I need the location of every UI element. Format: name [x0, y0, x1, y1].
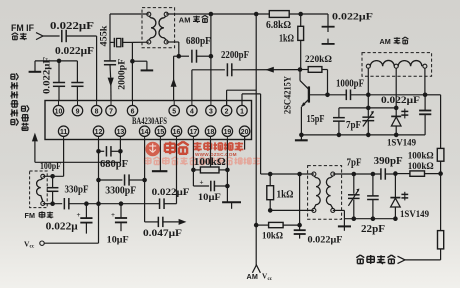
label 7pF AM tank: [346, 120, 361, 131]
label 0.022uF pin16: [152, 188, 190, 198]
resistor 100k horizontal: [395, 171, 440, 176]
wire pin4: [191, 70, 193, 101]
svg-text:0.022μF: 0.022μF: [332, 13, 373, 23]
svg-text:0.022μF: 0.022μF: [55, 46, 94, 57]
label 7pF FM tank: [347, 158, 362, 169]
wire antenna left tap down: [367, 68, 369, 108]
capacitor 0.022uF pin9: [71, 61, 83, 101]
svg-text:19: 19: [224, 129, 232, 136]
svg-text:18: 18: [207, 129, 215, 136]
junction: [119, 201, 124, 206]
junction: [225, 168, 230, 173]
wire AM tank top rail: [339, 107, 396, 109]
ground pin19: [222, 140, 241, 209]
label 22pF: [361, 224, 385, 235]
svg-text:AM: AM: [179, 16, 191, 25]
wire pin11 to coil: [43, 175, 64, 177]
junction: [423, 93, 428, 98]
svg-text:AM: AM: [247, 272, 259, 281]
capacitor electrolytic near Vcc: [77, 204, 93, 234]
label 0.022uF pins 9-10: [55, 46, 94, 57]
label 100k lower: [408, 162, 434, 172]
svg-text:AM: AM: [380, 37, 391, 46]
wire: [405, 259, 441, 261]
pin 14: [139, 126, 149, 140]
resistor 1k top: [279, 14, 304, 70]
transformer T1 right coil: [159, 16, 166, 40]
svg-text:15pF: 15pF: [307, 114, 325, 125]
svg-text:7pF: 7pF: [347, 158, 362, 169]
capacitor 100pF: [47, 176, 59, 203]
discriminator coil dashed box: [30, 171, 48, 208]
watermark logo disc: [145, 142, 160, 157]
resistor tuning divider: [438, 231, 444, 260]
capacitor 0.022uF FM IF coupling: [50, 21, 94, 42]
label 2SC4215Y vertical: [283, 76, 293, 114]
label tuning voltage: [356, 255, 395, 264]
wire to pin 8: [96, 36, 98, 101]
pin 6: [127, 101, 137, 116]
label 10uF pin17-19: [198, 193, 221, 203]
wire pin18: [210, 140, 212, 168]
svg-text:8: 8: [95, 108, 99, 115]
pin 11: [58, 126, 68, 140]
ground FM tank: [338, 219, 351, 231]
svg-text:6: 6: [131, 108, 135, 115]
junction: [177, 54, 182, 59]
capacitor 0.047uF with arrow out: [143, 217, 186, 239]
wire pin5 with arrow: [174, 56, 179, 100]
op-amp U1 BA4230AFS IC body: [45, 101, 252, 140]
svg-text:12: 12: [95, 129, 103, 136]
discriminator coil FM: [37, 174, 45, 205]
capacitor 0.022uF AM tank right: [419, 95, 431, 135]
svg-text:BA4230AFS: BA4230AFS: [132, 117, 167, 127]
label 680pF lower: [100, 159, 128, 170]
antenna coil L1: [366, 60, 427, 68]
wire pin6: [131, 42, 133, 100]
svg-text:1SV149: 1SV149: [387, 139, 416, 149]
pin 19: [222, 126, 232, 140]
wire antenna mid tap down: [395, 68, 397, 108]
svg-text:2SC4215Y: 2SC4215Y: [283, 76, 293, 114]
wire 330pF to pin12 rail: [69, 203, 160, 205]
junction: [394, 133, 399, 138]
junction: [84, 201, 89, 206]
junction: [366, 106, 371, 111]
ceramic filter 455k: [110, 38, 132, 47]
svg-text:16: 16: [173, 129, 181, 136]
capacitor 0.022uF pin10: [53, 61, 65, 101]
wire T2 bottom right to ground: [333, 210, 345, 218]
junction: [352, 216, 357, 221]
capacitor 2200pF: [221, 50, 249, 76]
wire feedback to audio: [35, 141, 121, 162]
svg-text:2200pF: 2200pF: [221, 50, 249, 61]
antenna AM dashed box: [362, 53, 432, 77]
wire T2 top to tank: [333, 173, 381, 175]
svg-text:15: 15: [157, 129, 165, 136]
svg-text:22pF: 22pF: [361, 224, 385, 235]
input arrow FM IF: [36, 33, 43, 40]
capacitor 2000pF: [104, 61, 116, 101]
watermark characters 电子市场网: [193, 142, 243, 151]
resistor 6.8k: [266, 11, 291, 31]
transformer T2 right coil: [326, 176, 332, 208]
label 100pF: [40, 162, 61, 172]
junction: [209, 12, 214, 17]
svg-text:10kΩ: 10kΩ: [262, 232, 283, 242]
pin 10: [53, 101, 63, 116]
capacitor 680pF pin12-13: [99, 146, 121, 156]
svg-text:100kΩ: 100kΩ: [194, 157, 226, 168]
svg-text:1kΩ: 1kΩ: [277, 190, 294, 201]
junction: [50, 174, 55, 179]
capacitor 390pF: [374, 156, 403, 180]
junction: [366, 133, 371, 138]
svg-text:14: 14: [141, 129, 149, 136]
capacitor 0.022uF bottom middle: [294, 225, 306, 239]
varactor D2 1SV149 FM: [390, 174, 408, 219]
junction: [352, 172, 357, 177]
pin 4: [187, 101, 197, 116]
capacitor electrolytic 10uF pin17-19: [193, 170, 227, 191]
resistor 10k: [256, 222, 299, 241]
resistor 100k pin17-19: [193, 167, 227, 173]
watermark pink slogan row: [145, 157, 261, 165]
junction: [96, 201, 101, 206]
junction: [254, 12, 259, 17]
wire discriminator bottom: [43, 203, 62, 205]
pin 12: [93, 126, 103, 140]
wire top left to transformer: [110, 13, 149, 15]
label 0.022uF bottom middle: [308, 235, 343, 245]
capacitor 22pF: [367, 174, 379, 219]
svg-text:5: 5: [172, 108, 176, 115]
junction: [268, 172, 273, 177]
svg-text:1000pF: 1000pF: [336, 79, 364, 90]
capacitor 1000pF: [328, 79, 426, 101]
wire 2200pF to transistor node: [232, 69, 300, 71]
capacitor 15pF: [307, 108, 345, 135]
junction: [371, 172, 376, 177]
transformer T2 terminals: [312, 172, 335, 212]
label 10uF mid: [107, 236, 129, 246]
label 1SV149 AM: [387, 139, 416, 149]
wire T1 bottom-left to pin6 node: [132, 41, 148, 43]
label FM IF input: [11, 23, 34, 40]
transformer T2 FM osc (dashed box): [308, 166, 342, 220]
wire pin3: [210, 14, 212, 101]
wire to right rail: [425, 95, 441, 149]
wire down 455k node: [109, 14, 111, 61]
watermark big characters 维库: [165, 142, 189, 155]
junction: [337, 133, 342, 138]
svg-text:680pF: 680pF: [100, 159, 128, 170]
label 0.022u: [46, 221, 78, 232]
svg-text:7: 7: [109, 108, 113, 115]
wire oscillator bottom: [270, 209, 314, 211]
svg-text:455k: 455k: [99, 26, 109, 47]
label 100k upper: [408, 152, 434, 162]
label 2000pF vertical: [117, 58, 127, 90]
wire: [66, 35, 96, 37]
trimmer 7pF FM: [348, 174, 360, 219]
wire: [289, 13, 328, 15]
transistor Q1 2SC4215Y: [300, 70, 328, 135]
svg-text:0.022μF: 0.022μF: [381, 96, 420, 106]
label 1SV149 FM: [400, 210, 429, 220]
ground pin6 node: [132, 61, 153, 70]
stub pin20: [244, 137, 246, 150]
svg-text:11: 11: [60, 129, 67, 136]
wire: [192, 69, 225, 71]
svg-text:680pF: 680pF: [186, 36, 211, 47]
wire AM tank bottom rail: [301, 134, 425, 136]
terminal Vcc: [24, 239, 44, 249]
svg-text:0.022μ: 0.022μ: [46, 221, 78, 232]
wire T1 bottom-right: [166, 42, 179, 56]
svg-text:3: 3: [209, 108, 213, 115]
pin 16: [171, 126, 181, 140]
wire: [35, 60, 77, 62]
junction: [254, 223, 259, 228]
input arrow tuning voltage: [398, 256, 406, 263]
capacitor 330pF: [64, 185, 88, 210]
wire AM Vcc rail: [255, 14, 257, 225]
wire pin11: [63, 140, 65, 177]
junction: [130, 59, 135, 64]
ground top-left: [29, 61, 42, 72]
label 0.022uF vertical: [42, 56, 52, 94]
junction: [393, 216, 398, 221]
svg-text:+: +: [77, 211, 81, 219]
label 0.022uF right: [381, 96, 420, 106]
junction: [394, 106, 399, 111]
svg-text:1: 1: [240, 108, 244, 115]
wire 220k to base: [327, 70, 329, 95]
capacitor 0.022uF top right: [322, 13, 374, 44]
junction: [393, 171, 398, 176]
junction: [118, 149, 123, 154]
wire pin13: [119, 140, 121, 152]
junction: [438, 171, 443, 176]
junction: [191, 168, 196, 173]
svg-text:0.022μF: 0.022μF: [50, 21, 94, 32]
svg-text:4: 4: [190, 108, 194, 115]
svg-text:0.022μF: 0.022μF: [42, 56, 52, 94]
wire FM tank bottom rail: [344, 218, 395, 220]
wire AM Vcc down: [255, 225, 257, 266]
svg-text:6.8kΩ: 6.8kΩ: [266, 20, 291, 31]
svg-text:17: 17: [190, 129, 198, 136]
capacitor 3300pF: [99, 174, 145, 196]
label audio feedback voltage vertical: [11, 73, 19, 125]
trimmer 7pF AM: [362, 108, 374, 135]
transformer T1 left coil: [149, 16, 156, 40]
label to high amp vertical: [21, 105, 29, 130]
arrow up into T1: [171, 78, 177, 87]
transformer T1 AM IF (dashed box): [142, 8, 175, 48]
wire antenna right tap down: [424, 68, 426, 95]
svg-text:10μF: 10μF: [107, 236, 129, 246]
svg-text:1kΩ: 1kΩ: [279, 34, 294, 45]
wire pin12 rail: [98, 140, 100, 244]
svg-text:FM IF: FM IF: [11, 23, 34, 33]
pin 13: [115, 126, 125, 140]
junction: [268, 208, 273, 213]
arrow left on 2200pF wire: [265, 67, 274, 73]
pin 1: [237, 101, 247, 116]
svg-text:0.047μF: 0.047μF: [143, 229, 182, 239]
varactor D1 1SV149 AM: [391, 108, 408, 135]
pin 15: [155, 126, 165, 140]
capacitor 0.022uF pin16: [160, 140, 177, 210]
transformer T1 terminals: [147, 12, 168, 44]
junction: [225, 184, 230, 189]
junction: [209, 54, 214, 59]
svg-text:220kΩ: 220kΩ: [305, 55, 332, 65]
junction: [57, 59, 62, 64]
pin 9: [72, 101, 82, 116]
arrow into pin 7: [108, 78, 114, 87]
arrow AM Vcc: [252, 265, 260, 273]
svg-text:7pF: 7pF: [346, 120, 361, 131]
label AM IF transformer: [179, 15, 208, 24]
junction: [366, 93, 371, 98]
svg-text:cc: cc: [30, 244, 35, 250]
svg-text:+: +: [200, 178, 204, 186]
label 455k vertical: [99, 26, 109, 47]
svg-text:20: 20: [241, 129, 249, 136]
junction: [142, 178, 147, 183]
svg-text:100kΩ: 100kΩ: [408, 152, 434, 162]
wire pin17: [192, 140, 194, 170]
pin 8: [91, 101, 101, 116]
wire pin14 rail: [144, 140, 146, 222]
junction: [325, 93, 330, 98]
svg-text:390pF: 390pF: [374, 156, 403, 167]
pin 2: [221, 101, 231, 116]
resistor 100k upper right rail: [437, 148, 444, 173]
svg-text:1SV149: 1SV149: [400, 210, 429, 220]
svg-text:FM: FM: [25, 211, 36, 220]
ground emitter: [295, 135, 308, 140]
svg-text:cc: cc: [268, 276, 273, 282]
junction: [298, 67, 303, 72]
ground pin15: [152, 140, 168, 172]
wire pin1 to oscillator rail: [242, 94, 270, 174]
wire drop to 10k node: [299, 174, 301, 225]
resistor 1k oscillator: [267, 174, 294, 210]
svg-text:0.022μF: 0.022μF: [308, 235, 343, 245]
svg-text:330pF: 330pF: [65, 185, 89, 196]
wire right rail lower: [440, 174, 442, 231]
label AM antenna: [380, 37, 409, 46]
junction: [96, 149, 101, 154]
resistor 220k: [300, 55, 332, 72]
svg-text:3300pF: 3300pF: [105, 185, 136, 196]
label FM discriminator: [25, 211, 54, 220]
pin 18: [205, 126, 215, 140]
junction: [50, 201, 55, 206]
arrow feedback up: [32, 133, 38, 142]
junction: [298, 12, 303, 17]
wire pin2 to supply rail: [227, 90, 257, 105]
junction: [96, 178, 101, 183]
svg-text:0.022μF: 0.022μF: [152, 188, 190, 198]
junction: [297, 172, 302, 177]
svg-text:+: +: [111, 211, 115, 219]
wire top rail: [166, 13, 269, 15]
wire Vcc to pin12 rail: [44, 242, 98, 244]
wire oscillator top: [270, 173, 314, 175]
capacitor 680pF top: [179, 36, 211, 63]
pin 3: [206, 101, 216, 116]
junction: [371, 216, 376, 221]
label 100k (over watermark): [194, 157, 226, 168]
junction: [299, 133, 304, 138]
transformer T2 left coil: [314, 176, 320, 208]
pin 5: [169, 101, 179, 116]
label AM Vcc: [247, 272, 273, 282]
junction: [297, 223, 302, 228]
wire: [43, 35, 60, 37]
pin 7: [106, 101, 116, 116]
svg-text:10μF: 10μF: [198, 193, 221, 203]
watermark url WWW.DZSC.COM: [195, 152, 237, 157]
svg-text:13: 13: [117, 129, 125, 136]
svg-text:2000pF: 2000pF: [117, 58, 127, 90]
capacitor electrolytic 10uF mid: [111, 204, 127, 232]
pin 17: [188, 126, 198, 140]
svg-text:9: 9: [76, 108, 80, 115]
pin 20: [239, 126, 249, 140]
svg-text:2: 2: [225, 108, 229, 115]
svg-text:100pF: 100pF: [40, 162, 61, 172]
svg-text:10: 10: [55, 108, 63, 115]
